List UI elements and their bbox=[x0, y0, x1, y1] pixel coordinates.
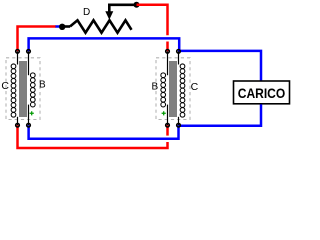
T2 terminal top-right bbox=[177, 50, 181, 54]
wire blue: top rail T1 top-right to T2 top-right bbox=[29, 38, 180, 51]
junction dot wiper/red bbox=[134, 2, 140, 8]
T1 terminal top-right bbox=[27, 50, 31, 54]
rheostat D zigzag body bbox=[70, 20, 132, 32]
rheostat wiper arrow bbox=[105, 11, 113, 19]
svg-text:B: B bbox=[152, 82, 159, 93]
wire red: segment above blue crossing to T2 bottom-left terminal bbox=[166, 125, 169, 135]
T2 winding B bottom stub bbox=[167, 105, 169, 126]
wiper wire black up and right bbox=[109, 5, 136, 13]
T1 core bbox=[20, 61, 26, 117]
T2 polarity plus green bbox=[162, 111, 166, 115]
T1 winding B top stub bbox=[28, 51, 30, 75]
transformer T1 dashed enclosure bbox=[6, 58, 40, 120]
svg-text:C: C bbox=[1, 80, 9, 92]
T2 winding C top stub bbox=[178, 51, 180, 64]
wire red: top-left L from T1 top-left terminal up and right to junction bbox=[18, 27, 57, 52]
T1 winding B loops bbox=[30, 73, 35, 107]
transformer T2 dashed enclosure bbox=[156, 58, 190, 120]
wire red: segment below blue crossing bbox=[166, 42, 169, 52]
T1 winding C top stub bbox=[17, 51, 19, 64]
T1 terminal bottom-left bbox=[16, 123, 20, 127]
T2 terminal bottom-right bbox=[177, 123, 181, 127]
T1 polarity plus green bbox=[30, 111, 34, 115]
CARICO box bbox=[234, 81, 290, 104]
wire blue: T2 top-right terminal to CARICO top bbox=[179, 51, 262, 81]
T1 winding C loops bbox=[11, 64, 16, 117]
wire blue: bottom rail T1 bottom-right to T2 bottom-right bbox=[29, 125, 179, 139]
T2 terminal bottom-left bbox=[166, 123, 170, 127]
T2 winding C loops bbox=[180, 64, 185, 117]
svg-text:B: B bbox=[39, 80, 46, 91]
wire red: top-right to T2 top-left terminal bbox=[137, 5, 168, 36]
T2 terminal top-left bbox=[166, 50, 170, 54]
wire blue: CARICO bottom to T2 bottom-right terminal bbox=[179, 104, 262, 125]
T2 winding B top stub bbox=[167, 51, 169, 75]
T1 winding B bottom stub bbox=[28, 105, 30, 126]
junction node dot A bbox=[59, 24, 65, 30]
svg-text:C: C bbox=[191, 81, 199, 93]
svg-text:D: D bbox=[83, 7, 90, 18]
wire black to rheostat bbox=[63, 25, 70, 28]
T2 core bbox=[170, 61, 176, 117]
T1 terminal top-left bbox=[16, 50, 20, 54]
T2 winding C bottom stub bbox=[178, 117, 180, 125]
T1 winding C bottom stub bbox=[17, 117, 19, 125]
svg-text:CARICO: CARICO bbox=[238, 85, 286, 101]
wire red: bottom rail from T1 bottom-left terminal bbox=[18, 125, 168, 148]
wire blue stub before junction dot bbox=[56, 25, 61, 28]
T2 winding B loops bbox=[161, 73, 166, 107]
T1 terminal bottom-right bbox=[27, 123, 31, 127]
